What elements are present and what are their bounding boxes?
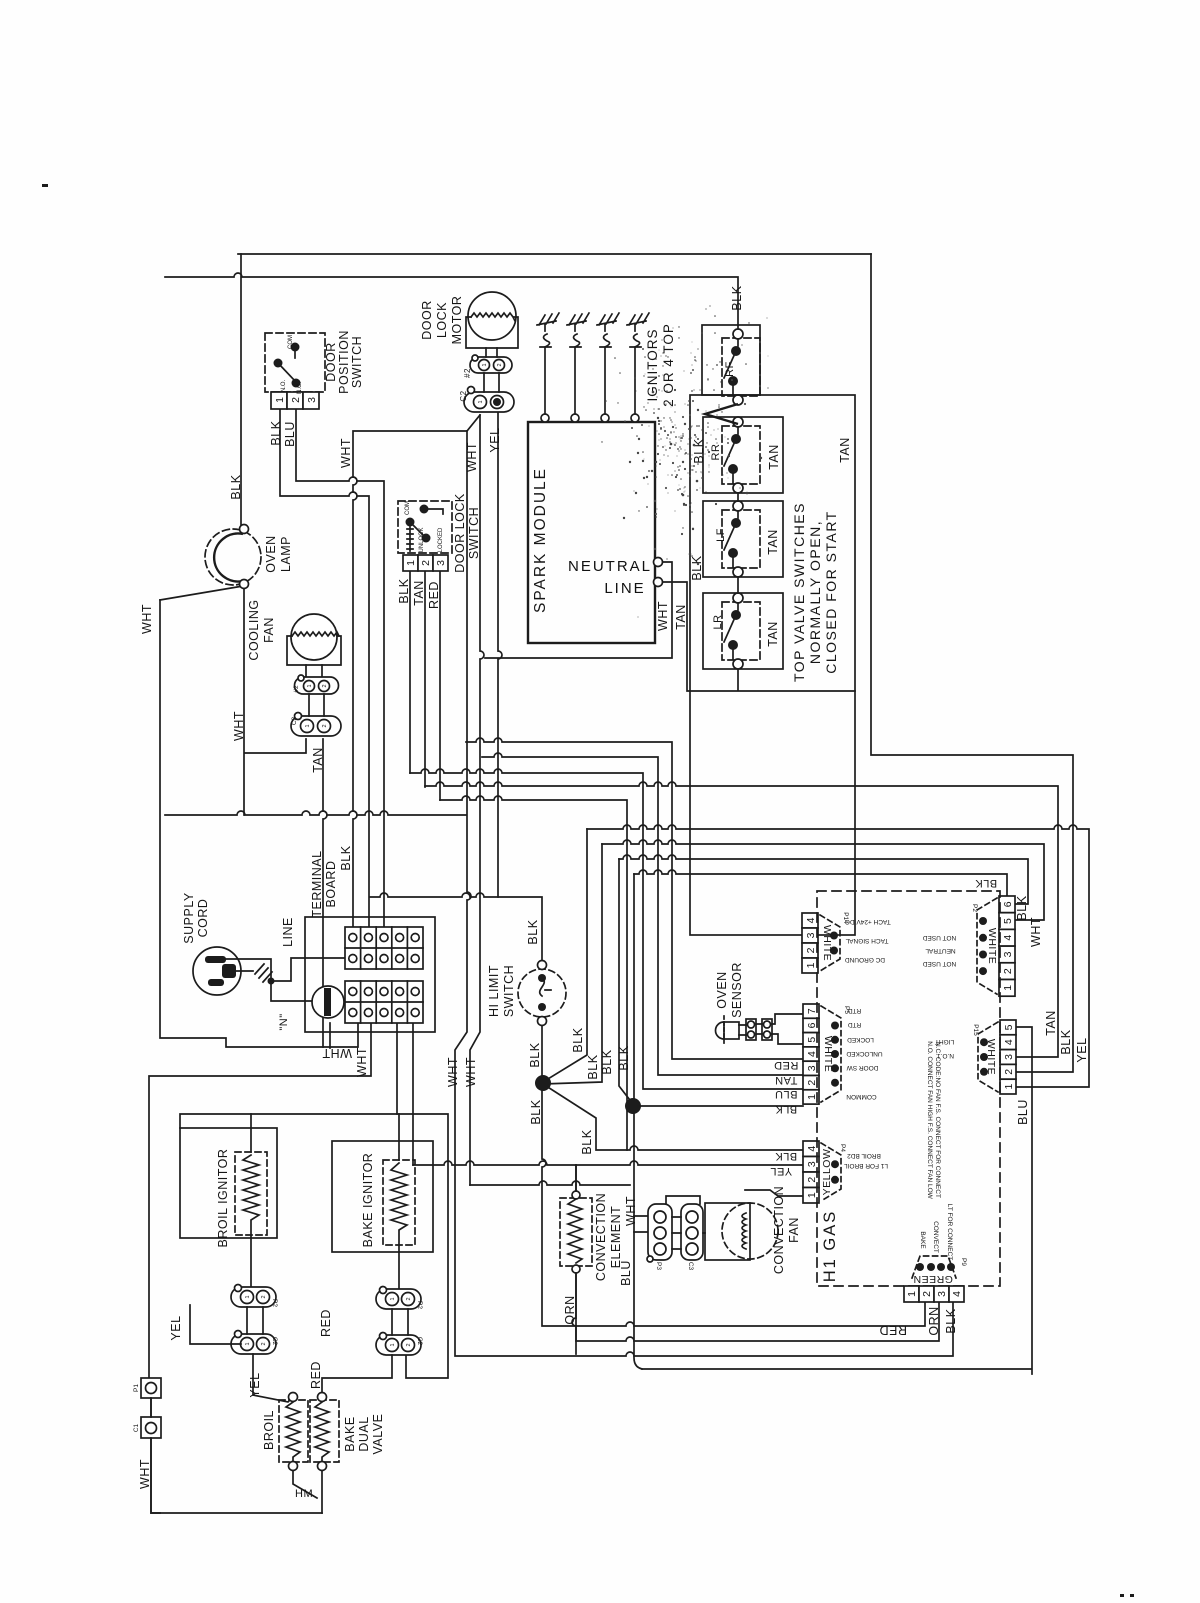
svg-text:WHITE: WHITE <box>822 1036 834 1072</box>
extra speckle <box>601 305 768 617</box>
wire: RR bottom to LF top <box>737 493 739 593</box>
wire HI LIMIT bottom to J1 <box>541 1025 543 1075</box>
svg-text:3: 3 <box>1002 951 1014 957</box>
wire door lock pin2 TAN <box>424 571 426 787</box>
door lock motor <box>466 292 518 348</box>
wire BLK line y897 to P14 <box>370 893 542 961</box>
connector C2 bake <box>376 1333 423 1356</box>
spark module pins <box>654 558 663 567</box>
svg-text:BLK: BLK <box>580 1129 594 1154</box>
connector C2 door lock motor <box>464 373 514 412</box>
svg-text:BAKE: BAKE <box>343 1416 357 1451</box>
svg-text:SENSOR: SENSOR <box>730 962 744 1018</box>
oven sensor <box>716 1014 804 1045</box>
svg-text:RED: RED <box>319 1309 333 1337</box>
svg-text:1: 1 <box>405 560 417 566</box>
svg-text:ORN: ORN <box>927 1306 941 1335</box>
connector C2 cooling fan <box>291 694 341 736</box>
svg-text:1: 1 <box>805 962 817 968</box>
svg-text:COMMON: COMMON <box>846 1093 877 1100</box>
ground hatch marks <box>255 964 272 982</box>
svg-text:N.O. CONNECT FAN HIGH F.S. CON: N.O. CONNECT FAN HIGH F.S. CONNECT FAN L… <box>926 1041 933 1199</box>
svg-text:BLK: BLK <box>975 877 997 889</box>
svg-text:LF: LF <box>715 528 727 542</box>
svg-text:RED: RED <box>774 1059 799 1071</box>
wire: RF bottom to RR top zigzag <box>705 404 738 424</box>
svg-text:BAKE IGNITOR: BAKE IGNITOR <box>361 1153 375 1248</box>
svg-text:ORN: ORN <box>563 1295 577 1324</box>
wire GREEN pin3 ORN line <box>572 1273 939 1341</box>
valve switch LF solid box <box>703 501 783 577</box>
svg-text:TACH +24V DC: TACH +24V DC <box>845 918 891 925</box>
wire bus y874 left drop through J2 <box>634 874 642 1369</box>
svg-text:TAN: TAN <box>767 444 781 470</box>
svg-text:TAN: TAN <box>838 437 852 463</box>
wire lamp bottom to WHT line <box>160 586 243 600</box>
wire bus y844 to P2 pin5 <box>602 840 1044 920</box>
svg-text:P4: P4 <box>839 1144 846 1152</box>
svg-text:6: 6 <box>1002 901 1014 907</box>
wire door position BLU to board <box>296 409 384 927</box>
svg-text:BLK: BLK <box>944 1308 958 1333</box>
valve switch RR solid box <box>703 417 783 493</box>
svg-text:NOT USED: NOT USED <box>922 934 956 941</box>
wire: junction to terminal board LINE <box>271 958 345 981</box>
svg-text:2: 2 <box>261 1295 267 1298</box>
wire spark LINE TAN to LR and box <box>659 582 855 691</box>
wire bake ignitor to P2 <box>398 1114 400 1289</box>
junction dot J1 <box>535 1075 551 1091</box>
svg-text:DOOR SW: DOOR SW <box>846 1064 879 1071</box>
oven lamp <box>205 525 261 589</box>
wire J1 diagonal to P4 pin3 <box>543 1084 803 1150</box>
ignitor symbol <box>567 313 589 347</box>
connector P15 <box>972 1020 1016 1094</box>
connector P2 broil <box>231 1285 278 1308</box>
wires P3 C3 fan <box>666 1196 705 1249</box>
svg-text:OVEN: OVEN <box>264 535 278 572</box>
svg-text:WHT: WHT <box>465 442 479 472</box>
bake ignitor outer box <box>332 1141 433 1252</box>
svg-text:WHT: WHT <box>1029 917 1043 947</box>
wire bus y874 BLK to P2 pin6 <box>634 870 1007 896</box>
ignitor symbol <box>597 313 619 347</box>
valve switch LR solid box <box>703 593 783 669</box>
bake valve coil <box>315 1402 329 1461</box>
svg-text:BLK: BLK <box>600 1049 614 1074</box>
spark module box <box>528 422 655 643</box>
wire door lock pin1 BLK <box>409 571 411 773</box>
cooling fan <box>287 614 341 677</box>
convection element <box>560 1165 592 1354</box>
wire y1114 line over ignitors <box>180 1114 448 1378</box>
svg-text:BLK: BLK <box>1059 1029 1073 1054</box>
svg-text:YEL: YEL <box>169 1315 183 1340</box>
svg-text:2 OR 4 TOP: 2 OR 4 TOP <box>661 323 676 407</box>
wire bus y773 BLK to P5 pin2 <box>410 769 803 1089</box>
wires P1 C1 <box>151 1398 160 1513</box>
svg-text:BAKE: BAKE <box>919 1231 926 1249</box>
svg-text:LAMP: LAMP <box>279 536 293 572</box>
svg-text:BLK: BLK <box>269 420 283 445</box>
svg-text:FAN: FAN <box>787 1217 801 1243</box>
svg-text:1: 1 <box>245 1342 251 1345</box>
svg-text:TAN: TAN <box>766 529 780 555</box>
svg-text:BOARD: BOARD <box>324 861 338 908</box>
svg-text:5: 5 <box>1002 918 1014 924</box>
svg-text:N.C. CODE:NO FAN F.S. CONNECT: N.C. CODE:NO FAN F.S. CONNECT FOR CONNEC… <box>934 1042 941 1198</box>
valve switches outer box <box>690 395 855 935</box>
door position switch pin boxes 1 2 3 <box>271 392 319 409</box>
svg-text:DUAL: DUAL <box>357 1416 371 1451</box>
svg-text:OVEN: OVEN <box>715 971 729 1008</box>
valve bottom wires HM <box>293 1471 322 1513</box>
connector P9 GREEN trapezoid <box>912 1256 967 1285</box>
svg-text:NEUTRAL: NEUTRAL <box>925 947 956 954</box>
wires P2-C2 broil <box>247 1307 263 1334</box>
svg-text:2: 2 <box>921 1291 933 1297</box>
svg-text:POSITION: POSITION <box>337 330 351 394</box>
valve terminals <box>289 1393 298 1402</box>
connector P2 <box>971 896 1015 996</box>
svg-text:YEL: YEL <box>488 427 502 452</box>
wires P2-C2 bake <box>392 1309 408 1335</box>
wire door position BLK to board <box>280 409 369 927</box>
wire WHT cooling C2 to junction <box>244 584 306 815</box>
svg-text:LT FOR CONNECT: LT FOR CONNECT <box>946 1204 953 1260</box>
svg-text:1: 1 <box>1002 985 1014 991</box>
svg-text:BLK: BLK <box>526 919 540 944</box>
wire bus y800 RED to P4 pin4 <box>440 796 627 1150</box>
valve switch LR dashed box <box>722 602 760 660</box>
svg-text:BLU: BLU <box>619 1260 633 1286</box>
svg-text:2: 2 <box>406 1343 412 1346</box>
wire TAN cooling C2 down to step line <box>323 739 327 1047</box>
svg-text:P15: P15 <box>972 1024 979 1036</box>
svg-text:DOOR: DOOR <box>324 342 338 382</box>
svg-text:#2: #2 <box>463 368 472 378</box>
wire bus y829 YEL long to P15 pin1 <box>587 825 1089 1087</box>
svg-text:N.C.: N.C. <box>297 382 303 394</box>
svg-text:LINE: LINE <box>281 917 295 947</box>
stray scan mark <box>42 184 48 187</box>
svg-text:BLK: BLK <box>229 474 243 499</box>
svg-text:3: 3 <box>306 397 318 403</box>
svg-text:1: 1 <box>307 684 313 687</box>
svg-text:BLK: BLK <box>586 1054 600 1079</box>
wire right border TAN down to P15 pin2 <box>871 254 1073 1072</box>
svg-text:P2: P2 <box>416 1301 423 1309</box>
svg-text:TACH SIGNAL: TACH SIGNAL <box>845 937 888 944</box>
svg-text:UNLOCKED: UNLOCKED <box>846 1050 882 1057</box>
svg-text:BLU: BLU <box>775 1088 798 1100</box>
svg-text:CLOSED FOR START: CLOSED FOR START <box>823 510 839 674</box>
svg-text:WHT: WHT <box>464 1057 478 1087</box>
svg-text:COOLING: COOLING <box>247 599 261 660</box>
wire bottom line BLU <box>642 1027 1032 1374</box>
wire WHT x466 from C2 corner down to x455 line <box>455 431 953 1356</box>
svg-text:RTD: RTD <box>848 1021 862 1028</box>
junction dot J2 <box>625 1098 641 1114</box>
door lock switch dashed box <box>398 501 452 553</box>
connector P4 <box>803 1141 846 1203</box>
connector C1 <box>133 1417 161 1438</box>
svg-text:5: 5 <box>1003 1024 1015 1030</box>
svg-text:1: 1 <box>478 400 484 403</box>
svg-text:YEL: YEL <box>1075 1037 1089 1062</box>
wire BLK drop to oven lamp <box>240 254 242 526</box>
svg-text:BLK: BLK <box>692 438 706 463</box>
svg-text:RF: RF <box>724 361 736 377</box>
svg-text:L1 FOR BROIL: L1 FOR BROIL <box>844 1162 888 1169</box>
svg-text:MOTOR: MOTOR <box>450 296 464 345</box>
connector P1 <box>133 1378 161 1398</box>
svg-text:2: 2 <box>322 684 328 687</box>
wire J1 down to convection element <box>542 1091 925 1326</box>
broil ignitor outer box <box>180 1128 277 1238</box>
connector C3 <box>681 1204 703 1271</box>
wire P4 pin1 stub <box>745 1190 803 1196</box>
wire line B to RF <box>165 273 738 329</box>
svg-text:4: 4 <box>951 1291 963 1297</box>
wire WHT door lock C2 across down to board <box>353 415 480 927</box>
connector P2 cooling fan <box>293 675 339 694</box>
svg-text:WHT: WHT <box>140 604 154 634</box>
svg-text:WHITE: WHITE <box>821 925 833 961</box>
wire bus y786 TAN long to P15 pin3 <box>425 782 1058 1057</box>
svg-text:BLK: BLK <box>339 845 353 870</box>
svg-text:1: 1 <box>390 1343 396 1346</box>
svg-text:TERMINAL: TERMINAL <box>310 850 324 917</box>
svg-text:C2: C2 <box>459 390 468 401</box>
svg-text:TAN: TAN <box>311 747 325 773</box>
valve switch RF solid box <box>702 325 760 395</box>
bake ignitor dashed box <box>383 1160 415 1245</box>
svg-text:RR: RR <box>710 444 722 461</box>
connector P3 <box>647 1204 672 1270</box>
terminal board lower strip <box>345 981 423 1023</box>
svg-text:WHT: WHT <box>624 1196 638 1226</box>
svg-text:1: 1 <box>482 363 488 366</box>
svg-text:VALVE: VALVE <box>371 1414 385 1455</box>
svg-text:P9: P9 <box>960 1258 967 1266</box>
control board dashed box <box>817 891 1000 1286</box>
svg-text:IGNITORS: IGNITORS <box>645 328 660 401</box>
junction dot plug <box>268 978 275 985</box>
svg-text:4: 4 <box>1002 935 1014 941</box>
svg-text:BROIL: BROIL <box>262 1410 276 1450</box>
ignitor leads <box>541 347 639 422</box>
svg-text:1: 1 <box>1003 1084 1015 1090</box>
svg-text:HM: HM <box>295 1488 313 1500</box>
wire terminal board cell wires <box>397 1023 413 1165</box>
broil valve dashed box <box>279 1400 308 1462</box>
connector P14 <box>802 912 849 973</box>
svg-text:TAN: TAN <box>766 621 780 647</box>
svg-text:WHT: WHT <box>232 711 246 741</box>
svg-text:C3: C3 <box>687 1262 694 1271</box>
connector P2 door lock motor <box>470 348 512 373</box>
wire spark NEUTRAL WHT <box>485 562 672 658</box>
wire BLU line y1185 to P3 <box>470 1181 648 1232</box>
scan speckle noise <box>605 339 746 515</box>
wire line B horizontal to bus <box>165 811 466 815</box>
broil ignitor resistor <box>243 1155 259 1238</box>
supply cord plug <box>193 947 241 995</box>
convection fan <box>705 1203 778 1260</box>
wire: plug middle prong stub <box>236 970 253 972</box>
svg-text:C1: C1 <box>133 1423 140 1432</box>
svg-text:2: 2 <box>290 397 302 403</box>
svg-text:BROIL BD2: BROIL BD2 <box>847 1152 881 1159</box>
svg-text:2: 2 <box>497 363 503 366</box>
svg-text:1: 1 <box>906 1291 918 1297</box>
wire bus y757 to P5 pin3 <box>482 753 803 1075</box>
svg-text:C2: C2 <box>271 1337 278 1346</box>
svg-text:#2: #2 <box>293 685 300 693</box>
ignitor symbol <box>627 313 649 347</box>
svg-text:SWITCH: SWITCH <box>467 507 481 559</box>
svg-text:BLK: BLK <box>775 1150 797 1162</box>
wire bus y859 to P2 <box>619 855 1028 904</box>
svg-text:BLK: BLK <box>775 1103 797 1115</box>
svg-text:WHITE: WHITE <box>985 1039 997 1075</box>
svg-text:ELEMENT: ELEMENT <box>609 1206 623 1269</box>
wire J2 to P5 pin1 BLK <box>633 1105 803 1107</box>
svg-text:TAN: TAN <box>412 580 426 606</box>
svg-text:COM: COM <box>405 501 411 515</box>
svg-text:2: 2 <box>1003 1069 1015 1075</box>
broil ignitor dashed box <box>235 1152 267 1235</box>
svg-text:DC GROUND: DC GROUND <box>845 956 885 963</box>
svg-text:YEL: YEL <box>248 1372 262 1397</box>
svg-text:C2: C2 <box>416 1337 423 1346</box>
svg-text:2: 2 <box>805 947 817 953</box>
svg-text:BLU: BLU <box>1016 1099 1030 1125</box>
svg-text:CONVECTION: CONVECTION <box>772 1186 786 1274</box>
wire bus y829 left drop to J1 <box>543 829 587 1082</box>
svg-text:BLK: BLK <box>397 578 411 603</box>
svg-text:BLK: BLK <box>617 1045 631 1070</box>
svg-text:LOCKED: LOCKED <box>438 527 444 552</box>
svg-text:3: 3 <box>936 1291 948 1297</box>
connector P9 pin boxes 1-4 <box>904 1286 964 1302</box>
svg-text:3: 3 <box>805 932 817 938</box>
svg-text:LINE: LINE <box>604 580 645 597</box>
svg-text:DOOR LOCK: DOOR LOCK <box>453 493 467 573</box>
valve switch LF dashed box <box>722 510 760 568</box>
terminal board outer box <box>305 917 435 1032</box>
wire C2 broil down to broil valve <box>253 1354 293 1402</box>
hi limit switch <box>518 961 566 1026</box>
svg-text:BLK: BLK <box>730 285 744 310</box>
svg-text:TOP VALVE SWITCHES: TOP VALVE SWITCHES <box>791 502 807 682</box>
wire bus y844 left drop to J1 <box>543 844 602 1084</box>
svg-text:SWITCH: SWITCH <box>350 336 364 388</box>
svg-text:LR: LR <box>712 614 724 629</box>
wire C2 bake down to bake valve RED <box>322 1355 392 1393</box>
connector C2 broil <box>231 1331 278 1355</box>
svg-text:TAN: TAN <box>674 604 688 630</box>
svg-text:WHT: WHT <box>138 1459 152 1489</box>
svg-text:3: 3 <box>1003 1054 1015 1060</box>
wire bus y742 to P5 pin4 <box>466 738 803 1059</box>
svg-text:SWITCH: SWITCH <box>502 965 516 1017</box>
svg-text:1: 1 <box>274 397 286 403</box>
svg-text:WHT: WHT <box>322 1046 352 1060</box>
valve switch RR dashed box <box>722 426 760 484</box>
svg-text:P2: P2 <box>971 904 978 912</box>
svg-text:WHT: WHT <box>355 1047 369 1077</box>
svg-text:BLK: BLK <box>1015 895 1029 920</box>
wire C2 broil left YEL <box>190 1305 241 1344</box>
svg-text:SPARK MODULE: SPARK MODULE <box>532 467 549 613</box>
svg-text:RED: RED <box>879 1323 907 1337</box>
svg-text:WHT: WHT <box>446 1057 460 1087</box>
svg-text:BROIL IGNITOR: BROIL IGNITOR <box>216 1149 230 1248</box>
svg-text:TAN: TAN <box>775 1074 798 1086</box>
svg-text:P1: P1 <box>133 1384 140 1392</box>
wire door lock pin3 RED <box>439 571 441 800</box>
svg-text:WHITE: WHITE <box>986 928 998 964</box>
wire broil ignitor to P2 <box>250 1114 252 1286</box>
terminal board upper strip <box>345 927 423 969</box>
ignitor symbol <box>537 313 559 347</box>
svg-text:LOCKED: LOCKED <box>847 1036 874 1043</box>
svg-text:BLK: BLK <box>571 1027 585 1052</box>
svg-text:GREEN: GREEN <box>913 1273 953 1285</box>
wire WHT line y1165 to P4 pin3 <box>413 1161 803 1165</box>
svg-text:FAN: FAN <box>262 617 276 643</box>
svg-text:2: 2 <box>420 560 432 566</box>
svg-text:4: 4 <box>1003 1039 1015 1045</box>
svg-text:NORMALLY OPEN,: NORMALLY OPEN, <box>807 520 823 664</box>
svg-text:YEL: YEL <box>770 1165 792 1177</box>
svg-text:RTD: RTD <box>848 1007 862 1014</box>
svg-text:BLU: BLU <box>283 421 297 447</box>
svg-text:2: 2 <box>1002 968 1014 974</box>
wire long WHT left vertical with step to terminal board <box>160 600 358 1047</box>
wire bus y859 left drop to J2 <box>619 859 633 1104</box>
wire: junction to neutral lug N <box>271 981 313 1001</box>
bake ignitor resistor <box>391 1163 407 1252</box>
svg-text:LOCK: LOCK <box>435 302 449 338</box>
neutral lug <box>312 986 344 1018</box>
svg-text:P3: P3 <box>655 1262 662 1270</box>
wire terminal board WHT stub <box>329 1023 331 1048</box>
svg-text:WHT: WHT <box>339 438 353 468</box>
svg-text:P2: P2 <box>271 1299 278 1307</box>
svg-text:BLK: BLK <box>528 1042 542 1067</box>
wire: plug top prong to junction <box>226 959 271 978</box>
wire YEL vertical from C2 pin2 <box>498 413 502 897</box>
wire WHT vertical from C2 pin1 <box>470 415 484 1185</box>
svg-text:RED: RED <box>427 581 441 609</box>
svg-text:NEUTRAL: NEUTRAL <box>568 558 652 575</box>
svg-text:CONVECT: CONVECT <box>932 1221 939 1253</box>
connector P2 bake <box>376 1287 423 1310</box>
svg-text:BLK: BLK <box>529 1099 543 1124</box>
svg-text:BLK: BLK <box>690 555 704 580</box>
svg-text:"N": "N" <box>278 1013 290 1030</box>
svg-text:H1 GAS: H1 GAS <box>821 1210 839 1283</box>
svg-text:WHT: WHT <box>656 601 670 631</box>
wire top line BLK <box>238 253 871 255</box>
svg-text:2: 2 <box>406 1297 412 1300</box>
svg-text:3: 3 <box>435 560 447 566</box>
svg-text:SUPPLY: SUPPLY <box>182 892 196 944</box>
connector P5 <box>803 1004 850 1104</box>
